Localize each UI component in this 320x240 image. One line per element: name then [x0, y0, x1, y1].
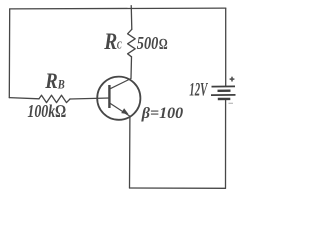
- resistor RC: [128, 29, 136, 57]
- battery 12V: [211, 86, 236, 99]
- svg-text:Ω: Ω: [159, 36, 168, 53]
- battery plus sign: [230, 77, 235, 82]
- wire base right segment: [70, 98, 109, 99]
- wire RC upper lead: [130, 8, 133, 29]
- label 500 ohm: [137, 33, 168, 53]
- svg-text:R: R: [103, 29, 117, 54]
- wire right rail lower: [225, 99, 227, 188]
- wire emitter lead: [129, 118, 131, 188]
- svg-text:β=100: β=100: [141, 105, 183, 122]
- transistor Q1: [97, 77, 140, 120]
- resistor RB: [39, 95, 70, 102]
- wire RC top stub: [130, 6, 132, 9]
- label RB: [44, 68, 64, 93]
- wire bottom rail: [130, 187, 226, 189]
- wire base left segment: [9, 98, 39, 99]
- svg-text:C: C: [117, 39, 122, 51]
- svg-text:100kΩ: 100kΩ: [27, 101, 66, 121]
- svg-text:12V: 12V: [189, 80, 208, 100]
- label RC: [103, 29, 122, 54]
- wire left rail: [8, 9, 10, 98]
- svg-text:R: R: [44, 68, 57, 93]
- wire right rail upper: [225, 8, 227, 86]
- svg-text:B: B: [57, 77, 65, 91]
- wire collector lead: [130, 57, 133, 79]
- svg-text:500: 500: [137, 33, 159, 53]
- scan artifact dash: [229, 102, 234, 104]
- wire top rail: [10, 7, 226, 10]
